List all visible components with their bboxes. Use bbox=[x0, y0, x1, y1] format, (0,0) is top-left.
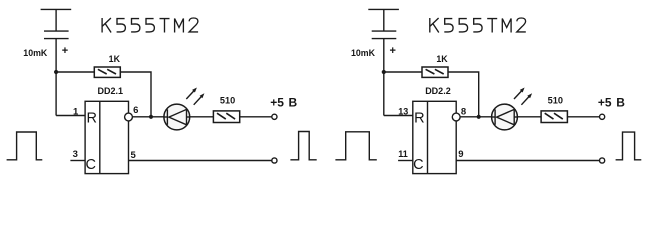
resistor R22 value 510 bbox=[548, 96, 563, 106]
terminal +5 V supply bbox=[600, 114, 605, 119]
svg-text:DD2.2: DD2.2 bbox=[425, 86, 451, 96]
output pulse waveform symbol bbox=[290, 132, 316, 160]
LED HL1 bbox=[164, 104, 190, 130]
flip-flop DD2.2 bbox=[413, 101, 456, 173]
svg-text:1: 1 bbox=[73, 106, 79, 117]
resistor R21 1K bbox=[422, 67, 448, 77]
net label +5 В bbox=[270, 95, 297, 109]
wire LED to resistor 510 bbox=[190, 116, 214, 118]
resistor R12 510 bbox=[213, 111, 239, 123]
junction node at flip-flop output bbox=[477, 115, 481, 119]
terminal output bbox=[600, 158, 605, 163]
capacitor C2 polarity + bbox=[389, 45, 395, 57]
pin number 8 bbox=[461, 106, 466, 117]
svg-text:R: R bbox=[86, 110, 96, 126]
svg-text:DD2.1: DD2.1 bbox=[98, 86, 124, 96]
svg-text:6: 6 bbox=[133, 105, 138, 116]
svg-text:+: + bbox=[389, 45, 395, 57]
wire resistor 1K to output node bbox=[448, 72, 479, 117]
wire pin 11 C input bbox=[398, 160, 413, 162]
terminal output bbox=[272, 158, 277, 163]
inversion circle on output pin 6 bbox=[125, 113, 133, 121]
svg-text:+5В: +5В bbox=[598, 95, 625, 109]
svg-text:510: 510 bbox=[220, 96, 235, 106]
LED HL2 light emission arrows bbox=[514, 88, 532, 105]
wire pin 3 C input bbox=[70, 160, 85, 162]
svg-text:R: R bbox=[414, 110, 424, 126]
wire junction to resistor 1K bbox=[384, 71, 422, 73]
wire capacitor to R input bbox=[383, 39, 385, 116]
wire pin 9 output to terminal bbox=[456, 160, 599, 162]
svg-text:9: 9 bbox=[458, 149, 463, 160]
resistor R11 1K bbox=[94, 67, 120, 77]
flip-flop designator DD2.1 bbox=[98, 86, 124, 96]
svg-text:1K: 1K bbox=[109, 54, 121, 64]
capacitor C2 value 10mK bbox=[351, 48, 376, 58]
resistor R11 value 1K bbox=[109, 54, 121, 64]
wire pin 5 output to terminal bbox=[129, 160, 272, 162]
wire LED to resistor 510 bbox=[517, 116, 541, 118]
pin number 1 bbox=[73, 106, 79, 117]
capacitor C1 10mK bbox=[41, 9, 72, 38]
pin number 5 bbox=[131, 150, 137, 161]
resistor R22 510 bbox=[541, 111, 567, 123]
svg-text:510: 510 bbox=[548, 96, 563, 106]
inversion circle on output pin 8 bbox=[452, 113, 460, 121]
svg-text:+5В: +5В bbox=[270, 95, 297, 109]
input pulse waveform symbol bbox=[7, 132, 43, 160]
flip-flop designator DD2.2 bbox=[425, 86, 451, 96]
junction node at flip-flop output bbox=[149, 115, 153, 119]
junction node at capacitor/resistor branch bbox=[382, 70, 386, 74]
output pulse waveform symbol bbox=[616, 132, 642, 160]
wire resistor 510 to +5V terminal bbox=[240, 116, 272, 118]
pin number 13 bbox=[398, 106, 408, 116]
svg-text:C: C bbox=[413, 157, 423, 173]
wire pin 13 R input bbox=[384, 115, 413, 117]
flip-flop DD2.1 bbox=[85, 101, 128, 173]
svg-text:C: C bbox=[85, 157, 95, 173]
capacitor C2 10mK bbox=[368, 9, 399, 38]
svg-text:+: + bbox=[62, 45, 68, 57]
IC type label K555TM2 bbox=[102, 18, 198, 33]
wire resistor 1K to output node bbox=[120, 72, 151, 117]
wire resistor 510 to +5V terminal bbox=[567, 116, 599, 118]
resistor R12 value 510 bbox=[220, 96, 235, 106]
IC type label K555TM2 bbox=[430, 18, 526, 33]
capacitor C1 polarity + bbox=[62, 45, 68, 57]
capacitor C1 value 10mK bbox=[23, 48, 48, 58]
wire pin 8 to LED bbox=[460, 116, 492, 118]
svg-text:10mK: 10mK bbox=[23, 48, 48, 58]
input pulse waveform symbol bbox=[335, 132, 376, 160]
svg-text:8: 8 bbox=[461, 106, 466, 117]
terminal +5 V supply bbox=[272, 114, 277, 119]
pin number 6 bbox=[133, 105, 138, 116]
pin number 11 bbox=[398, 149, 408, 159]
wire pin 1 R input bbox=[56, 115, 85, 117]
LED HL1 light emission arrows bbox=[186, 88, 204, 105]
svg-text:10mK: 10mK bbox=[351, 48, 376, 58]
svg-text:11: 11 bbox=[398, 149, 408, 159]
net label +5 В bbox=[598, 95, 625, 109]
wire capacitor to R input bbox=[55, 39, 57, 116]
svg-text:13: 13 bbox=[398, 106, 408, 116]
LED HL2 bbox=[492, 104, 518, 130]
pin number 3 bbox=[73, 149, 78, 160]
pin number 9 bbox=[458, 149, 463, 160]
wire pin 6 to LED bbox=[132, 116, 164, 118]
wire junction to resistor 1K bbox=[56, 71, 94, 73]
svg-text:5: 5 bbox=[131, 150, 137, 161]
svg-text:1K: 1K bbox=[436, 54, 448, 64]
junction node at capacitor/resistor branch bbox=[54, 70, 58, 74]
svg-text:3: 3 bbox=[73, 149, 78, 160]
resistor R21 value 1K bbox=[436, 54, 448, 64]
